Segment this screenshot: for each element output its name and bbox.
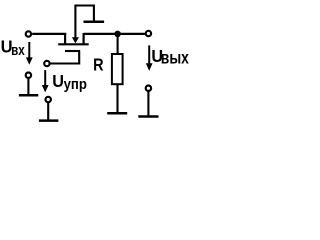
wire: input terminal to MOSFET source [32, 33, 66, 35]
svg-text:упр: упр [64, 75, 87, 92]
transistor VT (MOSFET) gate bar [65, 50, 80, 52]
svg-text:вх: вх [11, 42, 25, 59]
ground: substrate chassis bar [84, 20, 105, 23]
wire: resistor bottom to ground [116, 84, 118, 113]
terminal: input Uвх [26, 31, 31, 36]
terminal: output Uвых [146, 31, 151, 36]
wire: substrate lead hook [74, 6, 94, 22]
label Uвых [151, 46, 189, 68]
transistor VT substrate arrow (points into channel) [72, 6, 79, 44]
transistor VT (MOSFET) source lead [64, 33, 66, 44]
arrow: Uвх source voltage [26, 42, 33, 65]
node: drain junction dot [114, 31, 121, 38]
terminal+ground: below input [19, 73, 38, 96]
svg-text:вых: вых [161, 49, 189, 68]
label Uвх [1, 37, 26, 58]
ground: below resistor [107, 112, 127, 115]
svg-text:U: U [52, 71, 64, 91]
terminal: gate control [44, 61, 49, 66]
label R [93, 56, 104, 74]
wire: junction to resistor top [117, 34, 119, 55]
transistor VT (MOSFET) channel [58, 43, 88, 45]
label Uупр [52, 71, 87, 92]
svg-text:R: R [93, 56, 104, 74]
resistor R body [112, 54, 123, 84]
terminal+ground: below output [138, 86, 158, 117]
transistor VT gate lead wire [50, 52, 79, 64]
transistor VT (MOSFET) drain lead [82, 33, 84, 44]
arrow: Uвых output voltage [146, 45, 153, 71]
wire: MOSFET drain to output terminal [84, 33, 145, 35]
terminal+ground: below gate [39, 97, 59, 121]
arrow: Uупр control voltage [42, 70, 49, 92]
